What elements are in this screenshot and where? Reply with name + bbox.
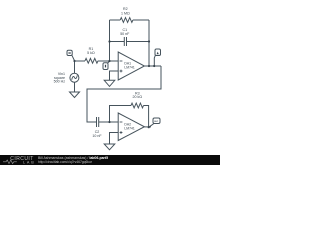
resistor R2 — [120, 18, 133, 23]
wire: DA1 output row — [144, 65, 161, 67]
wire: DA2 plus input — [110, 133, 119, 145]
wire: feedback top row right lead — [133, 19, 149, 21]
flag in (node at Vin) — [67, 50, 72, 55]
svg-text:LM741: LM741 — [124, 66, 134, 70]
svg-text:5 kΩ: 5 kΩ — [87, 51, 95, 55]
wire: source to ground — [74, 82, 76, 92]
wire: output down and around to C2 — [87, 66, 161, 122]
resistor R3 — [131, 103, 144, 108]
capacitor C1 — [124, 37, 126, 46]
flag node a (DA1 minus) — [103, 63, 108, 70]
svg-text:500 Hz: 500 Hz — [54, 80, 66, 84]
wire: C1 row right — [127, 41, 150, 43]
op-amp DA1 — [118, 52, 144, 80]
wire: DA2 output — [144, 126, 151, 128]
svg-text:R2: R2 — [123, 7, 128, 11]
junction dots — [68, 40, 158, 128]
flag glyphs — [68, 52, 70, 53]
wire: DA2 feedback loop — [110, 106, 132, 123]
capacitor C2 — [97, 117, 99, 127]
flag out (DA2 output) — [153, 118, 160, 124]
svg-text:10 nF: 10 nF — [92, 134, 102, 138]
wire: feedback top row left lead — [110, 19, 121, 21]
flag A (DA1 output) — [155, 49, 161, 56]
wire: C2 to DA2 minus input — [99, 121, 119, 123]
source Vin1 — [70, 73, 79, 82]
wire: feedback right vertical — [148, 20, 150, 66]
svg-text:LM741: LM741 — [124, 127, 134, 131]
wire: C1 row left — [110, 41, 125, 43]
wire: feedback left vertical — [109, 20, 111, 61]
labels — [54, 7, 143, 138]
wire: DA1 plus input — [110, 71, 119, 80]
wire: R3 to DA2 output — [144, 106, 149, 128]
wire: R1 to DA1 minus input — [98, 60, 118, 62]
svg-text:http://circuitlab.com/c/q7rv46: http://circuitlab.com/c/q7rv467gq6kur — [38, 160, 93, 164]
op-amp DA2 — [118, 113, 144, 141]
svg-text:20 kΩ: 20 kΩ — [133, 95, 143, 99]
svg-text:LAB: LAB — [23, 160, 36, 164]
wire: source to R1 row — [75, 60, 86, 62]
ground (DA2) — [104, 144, 115, 150]
svg-text:out: out — [154, 119, 158, 123]
watermark bar — [0, 155, 220, 165]
svg-text:1 MΩ: 1 MΩ — [121, 12, 130, 16]
svg-text:50 nF: 50 nF — [120, 32, 130, 36]
ground (DA1) — [104, 80, 115, 86]
wire: source vertical — [74, 61, 76, 73]
resistor R1 — [85, 58, 98, 63]
ground (source) — [70, 92, 80, 98]
